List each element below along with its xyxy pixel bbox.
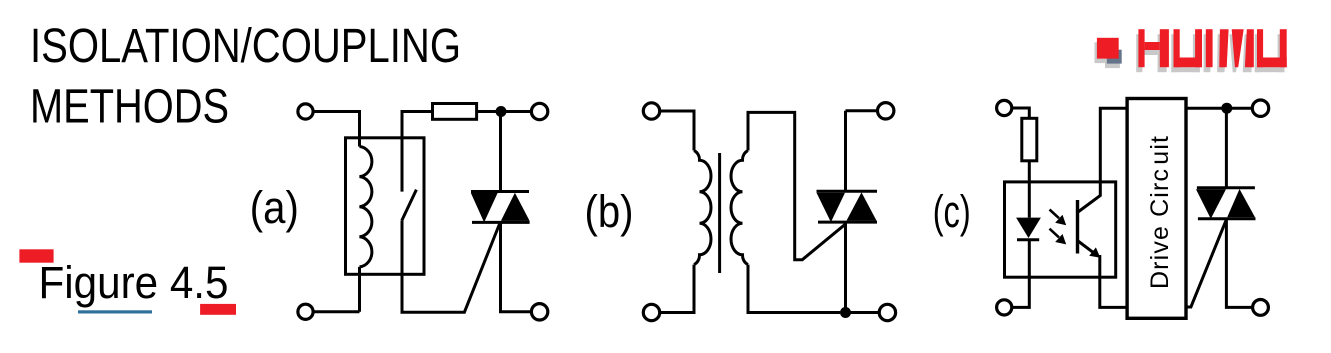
LED D1 triangle [1016, 218, 1041, 238]
LED D1 cathode bar [1017, 238, 1039, 241]
triac T2 left triangle [817, 193, 846, 222]
phototransistor emitter with arrow [1078, 241, 1095, 254]
resistor R1 [433, 104, 477, 120]
triac T2 bottom bar [818, 221, 877, 224]
wire junction down to triac [1225, 108, 1228, 188]
svg-text:Drive Circ uit: Drive Circ uit [1146, 136, 1174, 289]
node junction dot b1 [840, 307, 851, 318]
wire secondary bottom to junction [748, 265, 840, 313]
triac T3 right triangle [1227, 189, 1255, 217]
blue underline [78, 310, 152, 313]
wire resistor to terminal [477, 110, 532, 113]
resistor R2 [1022, 118, 1037, 161]
wire junction down to triac [499, 112, 502, 192]
optocoupler box U1 [1005, 182, 1116, 277]
relay switch fixed contact wire [402, 112, 433, 192]
wire triac bottom to terminal [1226, 219, 1252, 308]
phototransistor collector [1078, 108, 1127, 212]
wire emitter to drive circuit [1100, 255, 1127, 307]
wire secondary top to gate [748, 112, 846, 259]
triac T3 left triangle [1196, 189, 1226, 218]
wire top-left to relay coil [313, 112, 359, 147]
wire terminal to resistor [1012, 108, 1030, 118]
relay enclosure box K1 [346, 138, 425, 274]
phototransistor Q1 base bar [1076, 200, 1079, 254]
relay switch blade S1 [402, 190, 417, 221]
wire resistor to LED [1028, 161, 1031, 218]
svg-text:Figure 4.5: Figure 4.5 [39, 257, 229, 308]
terminal B-top-right [878, 103, 894, 119]
terminal A-bottom-left [298, 304, 313, 319]
wire primary to bottom-left terminal [660, 265, 694, 313]
triac T2 right triangle [847, 192, 877, 220]
wire triac bottom to junction [844, 222, 847, 312]
terminal B-bottom-left [643, 304, 659, 320]
svg-text:METHODS: METHODS [30, 80, 229, 133]
svg-text:(a): (a) [250, 182, 299, 233]
transformer primary winding [694, 151, 711, 265]
triac T1 left triangle [471, 193, 498, 222]
wire switch bottom to gate [402, 221, 500, 313]
light arrow 2 [1050, 229, 1067, 245]
svg-text:(c): (c) [933, 186, 971, 237]
wire terminal down to triac [844, 111, 847, 191]
triac T3 top bar [1197, 186, 1255, 189]
transformer core [718, 153, 721, 273]
light arrow 1 [1050, 210, 1067, 226]
triac T1 bottom bar [472, 221, 530, 224]
terminal C-bottom-right [1253, 300, 1269, 316]
wire relay coil to bottom-left terminal [313, 267, 359, 312]
triac T3 gate wire [1186, 221, 1226, 308]
logo red square [1097, 38, 1119, 59]
wire LED to bottom-left terminal [1012, 240, 1030, 308]
wire junction to bottom-right terminal [846, 311, 880, 314]
terminal B-top-left [643, 103, 659, 119]
triac T2 top bar [817, 190, 878, 193]
wire drive circuit to junction and terminal [1186, 107, 1252, 110]
terminal A-top-left [298, 104, 313, 119]
terminal C-top-right [1252, 100, 1268, 116]
logo wordmark HUIMU with shadow [1136, 29, 1287, 72]
terminal C-bottom-left [997, 300, 1012, 315]
terminal C-top-left [997, 100, 1012, 115]
svg-text:ISOLATION/COUPLING: ISOLATION/COUPLING [30, 20, 461, 73]
terminal A-top-right [531, 103, 547, 119]
red highlight mark bottom-right of Figure caption [200, 304, 236, 315]
red highlight mark top-left of Figure caption [19, 249, 53, 262]
svg-text:(b): (b) [585, 186, 634, 237]
triac T3 bottom bar [1198, 217, 1256, 220]
logo shadow squares [1095, 42, 1117, 63]
logo slate square [1107, 50, 1122, 64]
wire triac to bottom-right terminal [501, 222, 532, 311]
wire triac top to terminal [846, 109, 878, 112]
triac T1 top bar [471, 190, 529, 193]
triac T1 right triangle [501, 193, 530, 221]
terminal B-bottom-right [879, 304, 895, 320]
wire top-left to primary [660, 111, 694, 151]
node junction dot a1 [496, 106, 507, 117]
drive circuit box U2 [1127, 99, 1186, 319]
node junction dot c1 [1221, 103, 1232, 114]
terminal A-bottom-right [531, 304, 547, 320]
relay coil L1 [360, 147, 372, 267]
transformer secondary winding [731, 151, 748, 265]
